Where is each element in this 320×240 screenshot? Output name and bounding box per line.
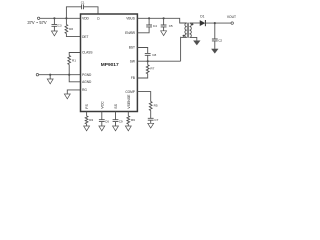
svg-text:C2: C2 <box>218 39 222 43</box>
wire C9 to gnd <box>115 122 117 126</box>
wire return to PGND <box>39 74 81 76</box>
ground (filled) under C2 <box>211 49 218 54</box>
wire BST to C8 <box>137 48 147 54</box>
wire to gnd <box>49 75 51 79</box>
ground (open) under R6 <box>125 126 131 131</box>
svg-text:SS: SS <box>114 103 118 108</box>
ground (open) under C6 <box>99 126 105 131</box>
wire R1 to return net <box>68 65 70 75</box>
wire SW net to R7 <box>147 61 149 65</box>
svg-text:C9: C9 <box>119 119 123 123</box>
capacitor C7 <box>148 118 159 122</box>
svg-text:C4: C4 <box>153 24 157 28</box>
wire VIN to VDD pin <box>40 17 81 19</box>
svg-text:C3: C3 <box>58 24 62 28</box>
wire R4 to gnd <box>86 124 88 126</box>
transformer T1 core <box>187 23 188 38</box>
IC U1 MP9017 <box>81 14 138 112</box>
ground (open) under R4 <box>84 126 90 131</box>
wire COMP to R5 <box>137 92 150 102</box>
svg-text:37V ~ 57V: 37V ~ 57V <box>27 20 47 25</box>
capacitor C1 <box>81 1 85 10</box>
capacitor C2 <box>212 39 223 43</box>
ground (open) under C5 <box>161 31 167 36</box>
svg-text:FS: FS <box>85 104 89 109</box>
transformer T1 secondary winding <box>190 23 192 37</box>
resistor R5 <box>149 102 157 111</box>
wire VBUS to transformer primary <box>137 18 186 23</box>
svg-text:DET: DET <box>82 35 88 39</box>
return terminal <box>36 74 38 76</box>
junction R1/return <box>68 74 70 76</box>
wire CLASS to R1 <box>69 53 80 56</box>
svg-text:VDD: VDD <box>82 16 89 20</box>
svg-text:C6: C6 <box>105 119 109 123</box>
wire C3 to gnd <box>53 26 55 31</box>
svg-text:MP9017: MP9017 <box>101 62 119 68</box>
wire AGND to return net <box>69 75 80 82</box>
capacitor C8 <box>145 53 157 57</box>
wire VSENSE pin <box>127 112 129 116</box>
svg-text:VCC: VCC <box>100 101 104 109</box>
ground (open) under C3 <box>51 31 57 36</box>
phase dot secondary <box>191 23 193 25</box>
svg-text:PGND: PGND <box>82 73 92 77</box>
ground (open) return net <box>47 79 53 84</box>
svg-text:FB: FB <box>131 76 135 80</box>
wire secondary top tick to D1 <box>190 22 200 24</box>
ground (open) under C9 <box>113 126 119 131</box>
wire SW <box>137 60 180 62</box>
wire secondary bottom to gnd <box>190 37 197 40</box>
junction VOUT/C2 <box>214 22 216 24</box>
transformer T1 primary winding <box>185 23 187 37</box>
ground (open) under RG <box>64 94 70 99</box>
svg-text:AGND: AGND <box>82 80 92 84</box>
capacitor C9 <box>113 119 123 123</box>
wire C7 to gnd <box>150 120 152 123</box>
wire R7 to FB <box>137 74 147 78</box>
wire D1 to VOUT <box>205 22 231 24</box>
wire to C5 <box>163 18 165 25</box>
resistor R7 <box>146 65 154 74</box>
svg-text:SW: SW <box>130 59 135 63</box>
diode D1 <box>200 14 206 26</box>
svg-text:C7: C7 <box>154 118 158 122</box>
junction VIN/R2/C1 <box>65 17 67 19</box>
output terminal VOUT <box>231 22 233 24</box>
svg-text:VSENSE: VSENSE <box>127 94 131 109</box>
capacitor C3 <box>52 24 62 28</box>
svg-text:BST: BST <box>129 46 135 50</box>
svg-text:R6: R6 <box>131 118 135 122</box>
svg-text:C5: C5 <box>169 24 173 28</box>
wire to R2 <box>65 18 67 24</box>
svg-text:CLASS: CLASS <box>82 51 92 55</box>
resistor R1 <box>68 56 76 65</box>
capacitor C5 <box>161 24 173 28</box>
wire R5 to C7 <box>150 111 152 119</box>
input terminal <box>37 17 39 19</box>
capacitor C6 <box>99 119 109 123</box>
wire C1 to top pin <box>84 7 98 14</box>
resistor R2 <box>65 25 73 34</box>
wire SW riser to primary <box>180 37 182 61</box>
junction SW/C8/R7 <box>147 60 149 62</box>
svg-text:R4: R4 <box>89 118 93 122</box>
svg-text:EN/BR: EN/BR <box>125 31 135 35</box>
svg-text:R1: R1 <box>72 59 76 63</box>
wire C2 to gnd <box>214 41 216 49</box>
resistor R4 <box>85 116 93 124</box>
svg-text:C1: C1 <box>81 1 85 5</box>
svg-text:C8: C8 <box>152 53 156 57</box>
wire RG to gnd <box>67 90 80 94</box>
wire FSW pin <box>86 112 88 116</box>
svg-text:R2: R2 <box>69 27 73 31</box>
wire SS pin <box>115 112 117 120</box>
wire R6 to gnd <box>127 124 129 126</box>
wire to C4 <box>148 18 150 25</box>
wire VCC pin <box>101 112 103 120</box>
wire primary bottom tick <box>181 36 187 38</box>
junction VBUS/C5 <box>163 17 165 19</box>
capacitor C4 <box>146 24 157 28</box>
wire C4 to EN/BR <box>137 27 149 33</box>
junction VIN/C3 <box>53 17 55 19</box>
ground (open) COMP net <box>148 123 154 128</box>
svg-text:VBUS: VBUS <box>126 16 135 20</box>
svg-text:RG: RG <box>82 88 87 92</box>
svg-text:D1: D1 <box>200 14 204 18</box>
wire VDD net up to C1 <box>66 7 81 18</box>
wire C5 to gnd <box>163 27 165 31</box>
junction VBUS/C4 <box>148 17 150 19</box>
resistor R6 <box>127 116 135 124</box>
wire C8 to SW net <box>147 55 149 61</box>
wire to C3 <box>53 18 55 24</box>
svg-text:VOUT: VOUT <box>227 15 236 19</box>
ground (filled) secondary return <box>193 41 200 46</box>
svg-text:COMP: COMP <box>125 90 135 94</box>
wire to C2 <box>214 23 216 39</box>
svg-text:R7: R7 <box>150 67 154 71</box>
wire C6 to gnd <box>101 122 103 126</box>
wire R2 to DET <box>66 34 80 37</box>
junction return/gnd <box>49 74 51 76</box>
svg-text:R5: R5 <box>154 103 158 107</box>
phase dot primary <box>183 35 185 37</box>
